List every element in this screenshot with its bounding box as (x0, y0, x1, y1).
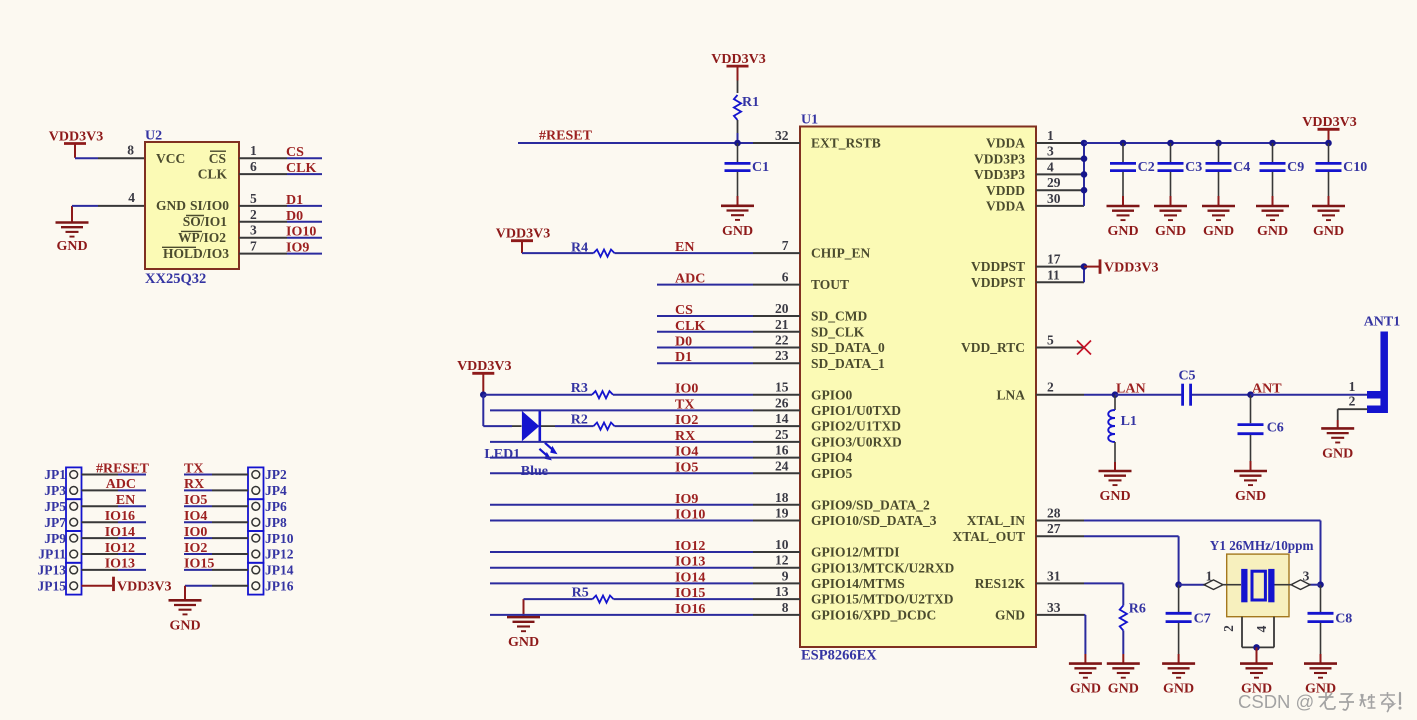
svg-text:JP15: JP15 (38, 579, 67, 594)
svg-text:EXT_RSTB: EXT_RSTB (811, 136, 881, 151)
wire R1 to node RESET (737, 133, 739, 143)
wire net IO15 (524, 598, 754, 600)
value ESP8266EX (801, 648, 877, 664)
ground GND (C7) (1162, 664, 1195, 697)
svg-text:#RESET: #RESET (96, 461, 150, 476)
net label IO15 (675, 586, 705, 601)
net label IO5 (U1) (675, 460, 698, 475)
svg-text:HOLD/IO3: HOLD/IO3 (163, 246, 229, 261)
wire RES12K pin31 to R6 (1084, 583, 1123, 605)
net label IO5 (JP) (184, 493, 207, 508)
ground GND (ANT1) (1321, 428, 1354, 461)
ground GND (JP16) (169, 600, 202, 633)
junction pin29 (1081, 187, 1088, 194)
wire net RX (JP) (184, 489, 248, 491)
connector pin JP10 (252, 531, 294, 546)
svg-text:25: 25 (775, 427, 789, 442)
power VDD3V3 (R4/EN) (496, 227, 550, 254)
wire net IO0 (483, 394, 753, 396)
pin 2 stub of U2 (239, 207, 287, 222)
crystal Y1 pin 1 (1179, 569, 1227, 590)
net label CS (U2) (286, 145, 304, 160)
junction pin1 rail (1081, 140, 1088, 147)
connector pin JP6 (252, 499, 287, 514)
wire R6 to ground (1122, 631, 1124, 664)
net label IO2 (675, 413, 698, 428)
svg-text:CLK: CLK (198, 167, 228, 182)
svg-text:17: 17 (1047, 252, 1061, 267)
svg-text:GPIO4: GPIO4 (811, 450, 853, 465)
U2 pin name CS (active low) (209, 151, 226, 166)
ground GND (C8) (1304, 664, 1337, 697)
svg-text:D0: D0 (286, 209, 303, 224)
svg-text:VDD3V3: VDD3V3 (1302, 115, 1356, 130)
ground GND (L1) (1099, 471, 1132, 504)
svg-text:GND: GND (1163, 682, 1194, 697)
svg-text:GND: GND (56, 239, 87, 254)
svg-text:GND: GND (169, 618, 200, 633)
svg-text:23: 23 (775, 348, 789, 363)
junction node LAN (1112, 391, 1119, 398)
wire VDD node down to LED1 (483, 395, 512, 426)
wire net D0 (U2) (287, 221, 322, 223)
svg-text:4: 4 (128, 190, 135, 205)
svg-text:IO5: IO5 (675, 460, 698, 475)
wire net ADC (657, 284, 753, 286)
svg-text:R1: R1 (742, 95, 759, 110)
ground GND (C10) (1312, 206, 1345, 239)
U1 pin 30 (VDDA) (986, 191, 1084, 214)
designator U1 (801, 113, 818, 128)
svg-text:16: 16 (775, 443, 789, 458)
wire net IO15 (JP) (184, 569, 248, 571)
capacitor C8 (1308, 585, 1353, 664)
junction crystal ground node (1253, 644, 1260, 651)
power VDD3V3 (JP15) (82, 577, 172, 595)
net label IO9 (U2) (286, 241, 309, 256)
net label IO13 (JP) (105, 557, 135, 572)
designator LED1 (484, 447, 520, 462)
U2 pin name VCC (156, 151, 185, 166)
wire net IO10 (U1) (490, 520, 753, 522)
resistor R6 (1120, 602, 1146, 631)
svg-text:8: 8 (127, 143, 134, 158)
pin 7 stub of U2 (239, 239, 287, 254)
U2 pin name HOLD/IO3 (162, 246, 229, 261)
svg-text:LED1: LED1 (484, 447, 520, 462)
svg-text:GND: GND (1107, 224, 1138, 239)
svg-text:LNA: LNA (996, 387, 1025, 402)
svg-text:VDDPST: VDDPST (971, 259, 1025, 274)
wire net CLK (U2) (287, 173, 322, 175)
pin 6 stub of U2 (239, 159, 287, 174)
U1 pin 8 (GPIO16/XPD_DCDC) (753, 600, 936, 623)
connector pin JP14 (252, 563, 294, 578)
net label TX (U1) (675, 397, 694, 412)
svg-text:TX: TX (675, 397, 694, 412)
wire net IO14 (U1) (490, 582, 753, 584)
connector pin JP8 (252, 515, 287, 530)
U1 pin 31 (RES12K) (975, 568, 1084, 591)
crystal Y1 pin 3 (1289, 569, 1321, 590)
svg-text:7: 7 (782, 238, 789, 253)
svg-text:XTAL_OUT: XTAL_OUT (952, 529, 1025, 544)
wire VDD rail horizontal (1084, 142, 1329, 144)
connector pin JP13 (38, 563, 78, 578)
svg-text:7: 7 (250, 239, 257, 254)
U1 pin 20 (SD_CMD) (753, 301, 867, 324)
svg-text:GND: GND (1155, 224, 1186, 239)
svg-text:EN: EN (675, 240, 694, 255)
U1 pin 21 (SD_CLK) (753, 317, 865, 340)
svg-text:VDDD: VDDD (986, 183, 1025, 198)
svg-text:JP12: JP12 (265, 547, 294, 562)
svg-text:GND: GND (508, 635, 539, 650)
svg-text:GND: GND (1313, 224, 1344, 239)
svg-text:VDDA: VDDA (986, 199, 1025, 214)
chip U2 body (145, 142, 239, 269)
U1 pin 1 (VDDA) (986, 128, 1084, 151)
svg-text:C2: C2 (1138, 160, 1155, 175)
capacitor C10 (1316, 143, 1368, 206)
wire net IO4 (JP) (184, 521, 248, 523)
net label IO12 (JP) (105, 541, 135, 556)
svg-text:L1: L1 (1121, 414, 1137, 429)
connector JP1-JP15 body (66, 467, 82, 594)
crystal Y1 label (1210, 538, 1314, 553)
svg-text:2: 2 (1349, 393, 1356, 408)
wire power-pins bus vertical (1083, 143, 1085, 206)
net label CS (U1) (675, 303, 693, 318)
inductor L1 (1108, 395, 1137, 442)
svg-text:D0: D0 (675, 335, 692, 350)
wire net EN (522, 252, 753, 254)
ground GND (C2) (1107, 206, 1140, 239)
wire net IO10 (U2) (287, 237, 322, 239)
svg-text:SD_CMD: SD_CMD (811, 309, 867, 324)
junction node XTAL3 (1317, 581, 1324, 588)
svg-text:GND: GND (1099, 489, 1130, 504)
wire net #RESET (JP) (82, 474, 147, 476)
svg-text:TOUT: TOUT (811, 277, 849, 292)
svg-text:VDD3V3: VDD3V3 (1104, 261, 1158, 276)
antenna ANT1 pin 1 (1349, 379, 1356, 394)
svg-text:30: 30 (1047, 191, 1061, 206)
connector pin JP3 (44, 483, 77, 498)
wire VDDPST pins 17-11 (1083, 267, 1085, 283)
U1 pin 6 (TOUT) (753, 270, 849, 293)
svg-text:CLK: CLK (286, 161, 316, 176)
svg-text:VDDPST: VDDPST (971, 275, 1025, 290)
svg-text:IO15: IO15 (184, 557, 214, 572)
net label IO10 (U1) (675, 508, 705, 523)
svg-text:JP8: JP8 (265, 515, 287, 530)
svg-text:21: 21 (775, 317, 789, 332)
net label IO16 (675, 602, 705, 617)
svg-text:VDD3V3: VDD3V3 (117, 580, 171, 595)
watermark CSDN (1238, 691, 1402, 712)
svg-text:8: 8 (782, 600, 789, 615)
op-amp U1 body (ESP8266EX) (800, 127, 1036, 648)
svg-text:ADC: ADC (106, 477, 136, 492)
svg-text:27: 27 (1047, 521, 1061, 536)
wire XTAL_IN pin28 to C8 node (1084, 521, 1321, 585)
svg-text:ADC: ADC (675, 272, 705, 287)
junction rail at C4 (1215, 140, 1222, 147)
svg-text:GPIO3/U0RXD: GPIO3/U0RXD (811, 435, 902, 450)
no-connect X on VDD_RTC pin 5 (1077, 341, 1091, 355)
svg-text:IO2: IO2 (184, 541, 207, 556)
U1 pin 15 (GPIO0) (753, 380, 853, 403)
svg-text:GND: GND (156, 198, 186, 213)
svg-text:1: 1 (1047, 128, 1054, 143)
wire net ADC (JP) (82, 489, 147, 491)
svg-text:Y1 26MHz/10ppm: Y1 26MHz/10ppm (1210, 538, 1314, 553)
svg-text:IO12: IO12 (675, 539, 705, 554)
U1 pin 22 (SD_DATA_0) (753, 333, 885, 356)
wire JP16 to ground (185, 586, 248, 601)
wire net IO4 (U1) (490, 457, 753, 459)
svg-text:5: 5 (250, 191, 257, 206)
wire U2 pin8 to VDD3V3 (75, 157, 98, 159)
wire net TX (U1) (490, 409, 753, 411)
svg-text:RX: RX (184, 477, 204, 492)
svg-text:3: 3 (1303, 569, 1310, 584)
U1 pin 7 (CHIP_EN) (753, 238, 871, 261)
net label RX (U1) (675, 429, 695, 444)
svg-text:CS: CS (286, 145, 304, 160)
svg-text:VDD_RTC: VDD_RTC (961, 340, 1025, 355)
junction node IO0/VDD (480, 391, 487, 398)
wire crystal node to ground (1256, 647, 1258, 663)
wire #RESET (518, 142, 753, 144)
U1 pin 32 (EXT_RSTB) (753, 128, 881, 151)
U1 pin 23 (SD_DATA_1) (753, 348, 885, 371)
ground GND (C1) (721, 206, 754, 239)
svg-text:20: 20 (775, 301, 789, 316)
svg-text:C9: C9 (1287, 160, 1304, 175)
svg-text:33: 33 (1047, 600, 1061, 615)
pin 1 stub of U2 (239, 143, 287, 158)
net label CLK (U1) (675, 319, 705, 334)
svg-text:VDD3P3: VDD3P3 (974, 151, 1025, 166)
wire net IO2 (555, 425, 753, 427)
svg-text:VDD3V3: VDD3V3 (457, 359, 511, 374)
svg-text:10: 10 (775, 537, 789, 552)
svg-text:GND: GND (1235, 489, 1266, 504)
svg-text:31: 31 (1047, 568, 1061, 583)
wire net IO9 (U2) (287, 253, 322, 255)
designator U2 (145, 129, 162, 144)
net label #RESET (JP) (96, 461, 150, 476)
net label D0 (U2) (286, 209, 303, 224)
net label ADC (JP) (106, 477, 136, 492)
net label IO4 (JP) (184, 509, 207, 524)
capacitor C5 (1178, 369, 1195, 406)
U2 pin name GND (156, 198, 186, 213)
wire XTAL_OUT pin27 to C7 node (1084, 536, 1179, 585)
resistor R1 (734, 81, 759, 134)
net label LAN (1116, 382, 1146, 397)
svg-text:GPIO16/XPD_DCDC: GPIO16/XPD_DCDC (811, 608, 936, 623)
svg-text:1: 1 (1349, 379, 1356, 394)
svg-text:JP10: JP10 (265, 531, 294, 546)
svg-text:JP3: JP3 (44, 483, 66, 498)
wire net IO12 (U1) (490, 551, 753, 553)
U2 pin name WP/IO2 (178, 230, 226, 245)
svg-text:3: 3 (1047, 144, 1054, 159)
svg-text:2: 2 (1221, 625, 1236, 632)
wire ANT to antenna pin 1 (1251, 394, 1368, 396)
svg-text:IO13: IO13 (105, 557, 135, 572)
svg-text:IO5: IO5 (184, 493, 207, 508)
svg-text:IO16: IO16 (105, 509, 135, 524)
antenna ANT1 pin 2 (1349, 393, 1356, 408)
svg-text:RES12K: RES12K (975, 576, 1026, 591)
ground GND (C4) (1202, 206, 1235, 239)
svg-text:GPIO1/U0TXD: GPIO1/U0TXD (811, 403, 901, 418)
svg-text:IO14: IO14 (105, 525, 135, 540)
svg-text:JP2: JP2 (265, 467, 287, 482)
svg-text:VCC: VCC (156, 151, 185, 166)
wire net IO0 (JP) (184, 537, 248, 539)
U1 pin 16 (GPIO4) (753, 443, 853, 466)
capacitor C7 (1166, 585, 1211, 664)
svg-text:C10: C10 (1343, 160, 1367, 175)
resistor R3 (571, 381, 613, 398)
power VDD3V3 (VDDPST) (1084, 259, 1158, 275)
net label IO0 (JP) (184, 525, 207, 540)
svg-text:GPIO5: GPIO5 (811, 466, 853, 481)
connector pin JP1 (44, 467, 77, 482)
svg-text:JP7: JP7 (44, 515, 66, 530)
net label IO15 (JP) (184, 557, 214, 572)
ground GND (pin33) (1069, 664, 1102, 697)
connector pin JP16 (252, 579, 294, 594)
svg-text:IO2: IO2 (675, 413, 698, 428)
wire net CLK (U1) (657, 331, 753, 333)
svg-text:JP4: JP4 (265, 483, 287, 498)
svg-text:JP11: JP11 (38, 547, 66, 562)
ground GND (R6) (1107, 664, 1140, 697)
pin 8 stub of U2 (98, 143, 145, 159)
U1 pin 33 (GND) (995, 600, 1084, 623)
crystal Y1 body (1227, 554, 1289, 617)
svg-text:SO/IO1: SO/IO1 (183, 214, 228, 229)
wire net IO13 (U1) (490, 567, 753, 569)
U1 pin 29 (VDDD) (986, 175, 1084, 198)
svg-text:GND: GND (1257, 224, 1288, 239)
capacitor C1 (725, 143, 770, 206)
svg-text:C8: C8 (1335, 611, 1352, 626)
net label IO16 (JP) (105, 509, 135, 524)
U1 pin 5 (VDD_RTC) (961, 333, 1084, 356)
svg-text:12: 12 (775, 553, 789, 568)
net label D1 (U1) (675, 350, 692, 365)
wire net IO2 (JP) (184, 553, 248, 555)
capacitor C6 (1238, 395, 1284, 471)
U1 pin 14 (GPIO2/U1TXD) (753, 411, 901, 434)
U1 pin 26 (GPIO1/U0TXD) (753, 395, 901, 418)
svg-text:JP13: JP13 (38, 563, 67, 578)
net label IO14 (JP) (105, 525, 135, 540)
svg-text:JP5: JP5 (44, 499, 66, 514)
svg-text:C7: C7 (1194, 611, 1211, 626)
svg-text:JP9: JP9 (44, 531, 66, 546)
svg-text:22: 22 (775, 333, 789, 348)
svg-text:RX: RX (675, 429, 695, 444)
svg-text:IO12: IO12 (105, 541, 135, 556)
connector pin JP2 (252, 467, 287, 482)
svg-text:VDD3V3: VDD3V3 (49, 129, 103, 144)
svg-text:D1: D1 (675, 350, 692, 365)
svg-text:18: 18 (775, 490, 789, 505)
svg-text:CHIP_EN: CHIP_EN (811, 246, 871, 261)
svg-text:R6: R6 (1129, 602, 1146, 617)
wire antenna pin 2 to ground (1338, 409, 1368, 428)
wire net IO5 (U1) (490, 472, 753, 474)
wire net D1 (U2) (287, 205, 322, 207)
svg-text:TX: TX (184, 461, 203, 476)
capacitor C3 (1158, 143, 1203, 206)
svg-text:19: 19 (775, 506, 789, 521)
value XX25Q32 (145, 271, 206, 287)
net label IO10 (U2) (286, 225, 316, 240)
svg-text:IO14: IO14 (675, 570, 705, 585)
ground GND (U2 pin 4) (56, 206, 89, 254)
svg-text:IO9: IO9 (675, 492, 698, 507)
U2 pin name CLK (198, 167, 228, 182)
svg-text:SD_DATA_1: SD_DATA_1 (811, 356, 885, 371)
svg-text:U1: U1 (801, 113, 818, 128)
junction VDDPST (1081, 263, 1088, 270)
pin 3 stub of U2 (239, 223, 287, 238)
junction rail at C10 (1325, 140, 1332, 147)
net label IO4 (U1) (675, 445, 698, 460)
U1 pin 4 (VDD3P3) (974, 159, 1084, 182)
svg-text:IO13: IO13 (675, 555, 705, 570)
svg-text:U2: U2 (145, 129, 162, 144)
wire net TX (JP) (184, 474, 248, 476)
svg-text:JP16: JP16 (265, 579, 294, 594)
wire net D1 (U1) (657, 362, 753, 364)
wire net D0 (U1) (657, 347, 753, 349)
svg-text:24: 24 (775, 458, 789, 473)
net label ADC (675, 272, 705, 287)
net label IO2 (JP) (184, 541, 207, 556)
svg-text:GND: GND (995, 608, 1025, 623)
wire net IO9 (U1) (490, 504, 753, 506)
net label ANT (1252, 382, 1282, 397)
U1 pin 25 (GPIO3/U0RXD) (753, 427, 902, 450)
U1 pin 18 (GPIO9/SD_DATA_2) (753, 490, 930, 513)
svg-text:C5: C5 (1178, 369, 1195, 384)
net label D0 (U1) (675, 335, 692, 350)
svg-text:SI/IO0: SI/IO0 (190, 198, 229, 213)
svg-text:ESP8266EX: ESP8266EX (801, 648, 877, 664)
net label RX (JP) (184, 477, 204, 492)
junction node XTAL1 (1175, 581, 1182, 588)
svg-text:6: 6 (782, 270, 789, 285)
svg-text:GPIO15/MTDO/U2TXD: GPIO15/MTDO/U2TXD (811, 592, 954, 607)
antenna ANT1 (1364, 314, 1401, 413)
svg-text:GND: GND (1070, 682, 1101, 697)
U2 pin name SI/IO0 (190, 198, 229, 213)
svg-text:C6: C6 (1267, 421, 1284, 436)
value Blue (521, 464, 548, 479)
U1 pin 28 (XTAL_IN) (967, 506, 1084, 529)
svg-text:4: 4 (1254, 625, 1269, 632)
